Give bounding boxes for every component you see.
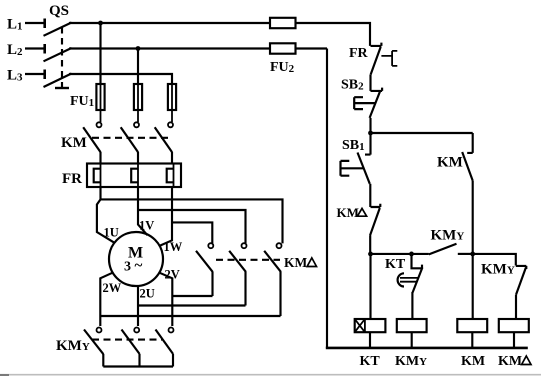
wire branch lead A to KM-delta contact 3: [101, 199, 283, 243]
svg-text:KT: KT: [360, 354, 381, 369]
wire phase A to control right rail: [296, 23, 371, 46]
svg-text:L3: L3: [7, 68, 23, 84]
thermal relay FR box: [87, 164, 181, 188]
wire lead A below FR to motor 1U: [97, 187, 115, 243]
wire phase B drop to FU1-2: [137, 49, 139, 85]
contactor KM main contact 1: [83, 122, 101, 163]
wire phase B bus (L2 to FU2b): [69, 47, 270, 49]
wire L1 lead-in: [25, 22, 44, 24]
contactor KM-star contact 2: [122, 328, 140, 367]
wire KM-star NC to KM-delta coil: [515, 295, 517, 319]
switch QS pole 1 fixed contact: [43, 19, 46, 29]
fuse FU2-2: [270, 43, 296, 53]
svg-text:1U: 1U: [104, 226, 119, 240]
wire motor 2U down to star contact 2: [137, 286, 139, 326]
svg-text:KM: KM: [498, 354, 522, 369]
wire control left rail: [326, 49, 328, 349]
fuse FU1-3: [171, 84, 173, 122]
wire KM coil to bus: [471, 332, 473, 348]
svg-text:2U: 2U: [140, 287, 155, 301]
svg-text:KMY: KMY: [431, 228, 465, 244]
coil KM-delta: [499, 319, 529, 332]
fuse FU1-2: [137, 84, 139, 122]
wire 2W branch to delta contact 3 bottom: [100, 315, 280, 317]
thermal relay FR heater 3: [167, 164, 174, 188]
wire phase B to control left rail: [296, 47, 328, 49]
wire branch lead C to KM-delta contact 1: [172, 222, 212, 243]
motor M1 body: [109, 232, 163, 286]
coil KM-star: [397, 319, 427, 332]
wire KM-star coil to bus: [411, 332, 413, 348]
wire lead C below FR to motor 1W: [160, 187, 172, 246]
contactor KM-delta contact 3: [264, 243, 281, 316]
contactor KM aux NO contact (seal-in): [462, 133, 473, 181]
junction dot SB1 top: [368, 131, 373, 136]
contactor KM-delta contact 1: [196, 243, 213, 296]
timer KT delayed contact: [398, 254, 423, 293]
contactor KM-star link (dashed): [92, 339, 162, 341]
contactor KM main contact 2: [121, 122, 139, 163]
wire 2V branch to delta contact 1 bottom: [172, 295, 212, 297]
svg-text:KM: KM: [61, 135, 87, 151]
contactor KM-star NC interlock contact: [516, 266, 527, 295]
wire rung to KM-star NC interlock: [473, 254, 516, 266]
svg-text:QS: QS: [49, 3, 69, 19]
svg-text:FU2: FU2: [270, 60, 295, 75]
contactor KM-delta contact 2: [229, 243, 246, 305]
svg-text:KT: KT: [385, 257, 406, 272]
wire lead B below FR to motor 1V: [138, 187, 147, 235]
wire L3 lead-in: [25, 73, 44, 75]
wire phase A drop to FU1-1: [99, 23, 101, 84]
wire KM-delta NC to junction: [369, 236, 371, 254]
switch QS pole 3 blade: [44, 74, 72, 88]
svg-text:FR: FR: [62, 171, 82, 187]
svg-text:FU1: FU1: [70, 94, 94, 109]
contactor KM-delta NC interlock contact: [370, 204, 380, 236]
pushbutton SB1 (start, NO): [341, 133, 371, 184]
fuse FU1-1: [100, 84, 102, 122]
contactor KM-star contact 1: [84, 328, 103, 367]
svg-text:KM: KM: [461, 354, 485, 369]
timer KT coil: [355, 319, 386, 332]
wire KM aux to KM coil: [472, 181, 474, 319]
contactor KM link (dashed): [92, 137, 168, 139]
wire rung node to KT branch: [371, 253, 429, 255]
wire KT coil to bus: [369, 332, 371, 348]
svg-text:L1: L1: [7, 17, 23, 33]
svg-text:L2: L2: [7, 42, 23, 58]
wire star point bus: [103, 365, 173, 367]
switch QS link end bar: [55, 87, 69, 89]
svg-text:KMY: KMY: [481, 262, 515, 278]
svg-text:3: 3: [124, 260, 131, 275]
switch QS pole 2 fixed contact: [43, 44, 46, 54]
wire SB2 to junction: [369, 118, 371, 133]
svg-text:KMY: KMY: [395, 354, 427, 369]
switch QS pole 2 blade: [44, 48, 72, 61]
switch QS mechanical link (dashed): [61, 27, 63, 87]
contactor KM main contact 3: [155, 122, 173, 163]
wire 2U branch to delta contact 2 bottom: [138, 304, 246, 306]
svg-text:~: ~: [135, 258, 143, 274]
wire KM-delta coil to bus: [513, 332, 515, 348]
fuse FU2-1: [270, 18, 296, 28]
decorative scan line bottom: [0, 374, 541, 376]
svg-text:KM: KM: [437, 155, 463, 171]
junction dot phase A: [98, 21, 103, 26]
thermal relay FR heater 1: [94, 164, 101, 188]
relay FR NC contact: [371, 43, 398, 75]
svg-text:FR: FR: [349, 46, 369, 61]
junction dot phase B: [136, 46, 141, 51]
wire phase A bus (L1 to FU2a): [69, 22, 270, 24]
svg-text:KM: KM: [337, 205, 359, 220]
junction dot KT branch: [409, 252, 414, 257]
coil KM: [457, 319, 487, 332]
junction dot KM rail: [470, 252, 475, 257]
wire motor 2V down to star contact 3: [159, 273, 172, 326]
svg-text:SB2: SB2: [341, 78, 364, 93]
contactor KM-star NO contact (horizontal): [429, 244, 473, 255]
contactor KM-delta link (dashed): [216, 259, 280, 261]
wire phase C to FU1-3: [69, 74, 172, 84]
svg-text:1W: 1W: [164, 240, 183, 254]
pushbutton SB2 (stop, NC): [354, 88, 382, 118]
wire junction to KT coil: [369, 254, 371, 319]
wire FR to SB2: [369, 74, 371, 91]
svg-text:1V: 1V: [139, 219, 154, 233]
svg-text:SB1: SB1: [342, 138, 365, 153]
contactor KM-star contact 3: [156, 328, 174, 367]
svg-text:KM: KM: [284, 255, 308, 270]
switch QS pole 3 fixed contact: [43, 70, 46, 80]
wire SB1 to KM-delta NC: [369, 184, 371, 207]
wire branch to KM aux contact: [371, 132, 473, 134]
wire bottom control bus: [326, 347, 528, 350]
junction dot rung node: [368, 252, 373, 257]
svg-text:2W: 2W: [103, 281, 122, 295]
wire KT contact to KM-star coil: [411, 292, 413, 319]
wire L2 lead-in: [25, 47, 44, 49]
wire branch lead B to KM-delta contact 2: [138, 210, 246, 243]
svg-text:KMY: KMY: [56, 338, 90, 354]
wire motor 2W down to star contact 1: [100, 273, 112, 326]
thermal relay FR heater 2: [131, 164, 138, 188]
switch QS pole 1 blade: [44, 23, 72, 36]
